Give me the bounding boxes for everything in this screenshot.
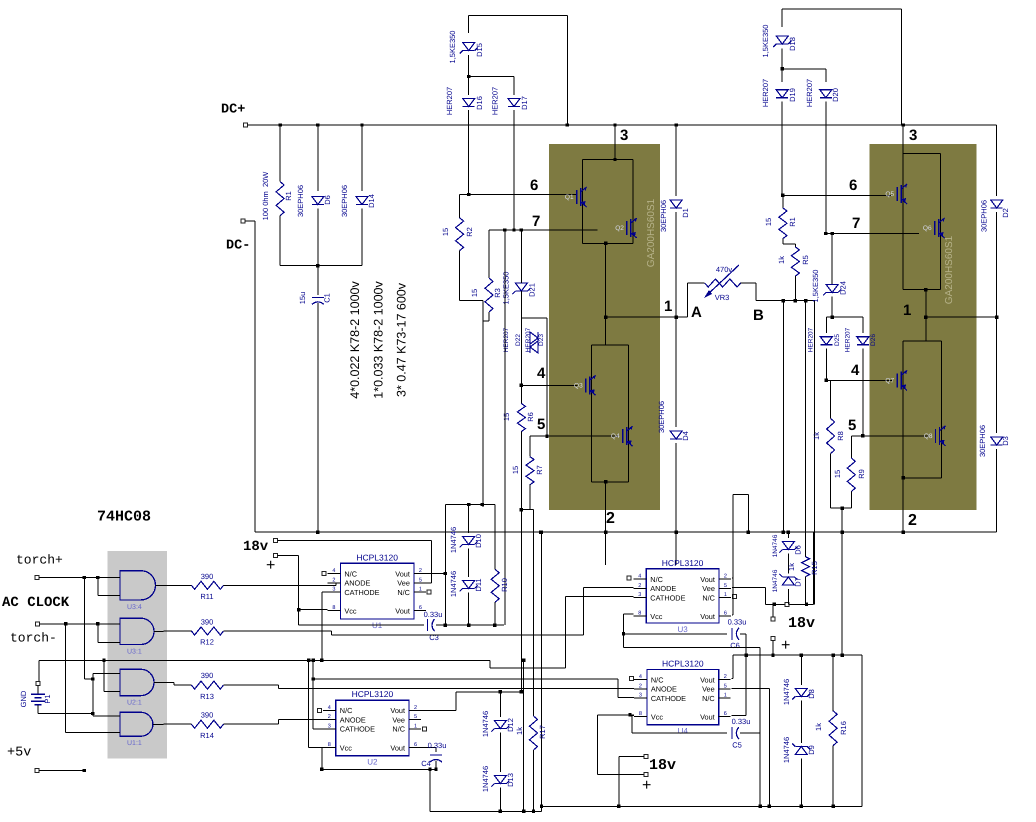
svg-text:Q3: Q3 [574, 382, 583, 389]
svg-text:D1: D1 [681, 208, 690, 218]
svg-text:U3: U3 [677, 625, 688, 634]
svg-text:4: 4 [328, 705, 331, 711]
svg-text:ANODE: ANODE [651, 685, 677, 694]
svg-text:R1: R1 [284, 191, 293, 201]
svg-text:D20: D20 [831, 88, 840, 102]
svg-text:U3:1: U3:1 [127, 649, 142, 656]
svg-text:74HC08: 74HC08 [97, 509, 151, 526]
svg-text:3: 3 [638, 592, 641, 598]
svg-text:1: 1 [724, 592, 727, 598]
svg-text:1N4746: 1N4746 [772, 534, 779, 557]
svg-text:2: 2 [638, 583, 641, 589]
svg-text:HER207: HER207 [845, 327, 852, 352]
svg-text:0.33u: 0.33u [428, 741, 447, 750]
svg-text:C3: C3 [429, 633, 439, 642]
svg-text:P1: P1 [43, 694, 52, 703]
svg-text:Vout: Vout [390, 743, 405, 752]
svg-text:HER207: HER207 [503, 327, 510, 352]
svg-text:1N4746: 1N4746 [481, 766, 490, 792]
svg-text:+5v: +5v [7, 746, 31, 761]
svg-text:HER207: HER207 [525, 327, 532, 352]
svg-text:1*0.033 K78-2 1000v: 1*0.033 K78-2 1000v [372, 281, 386, 399]
svg-text:U2:1: U2:1 [127, 700, 142, 707]
svg-text:1k: 1k [777, 256, 786, 264]
svg-text:D4: D4 [681, 431, 690, 441]
svg-text:8: 8 [638, 611, 641, 617]
svg-text:1: 1 [903, 302, 911, 319]
svg-text:1N4746: 1N4746 [782, 737, 791, 763]
svg-text:30EPH06: 30EPH06 [340, 185, 349, 217]
svg-text:HER207: HER207 [491, 87, 500, 115]
svg-text:D26: D26 [870, 334, 877, 346]
svg-text:3: 3 [332, 587, 335, 593]
svg-text:R14: R14 [200, 731, 214, 740]
svg-text:3: 3 [639, 693, 642, 699]
svg-text:C1: C1 [323, 293, 332, 303]
svg-text:torch-: torch- [10, 631, 57, 646]
svg-text:U1:1: U1:1 [127, 740, 142, 747]
svg-text:8: 8 [328, 742, 331, 748]
svg-text:3: 3 [909, 127, 917, 144]
svg-text:D6: D6 [323, 195, 332, 205]
svg-text:1: 1 [664, 298, 672, 315]
svg-text:HER207: HER207 [761, 79, 770, 107]
svg-text:R9: R9 [857, 469, 866, 479]
svg-text:18v: 18v [788, 615, 815, 632]
svg-text:R10: R10 [500, 578, 509, 592]
svg-text:Vout: Vout [395, 569, 410, 578]
svg-text:30EPH06: 30EPH06 [978, 425, 987, 457]
svg-text:ANODE: ANODE [344, 579, 370, 588]
svg-text:D25: D25 [834, 334, 841, 346]
svg-text:Vout: Vout [700, 575, 715, 584]
svg-text:Q1: Q1 [565, 194, 574, 201]
svg-text:D23: D23 [538, 334, 545, 346]
svg-text:4: 4 [537, 365, 546, 382]
svg-text:Vout: Vout [700, 675, 715, 684]
svg-text:Q8: Q8 [924, 433, 933, 440]
svg-text:HCPL3120: HCPL3120 [662, 658, 704, 668]
svg-text:D21: D21 [528, 283, 537, 297]
svg-text:N/C: N/C [651, 675, 664, 684]
svg-text:1N4746: 1N4746 [772, 569, 779, 592]
svg-text:U4: U4 [678, 727, 689, 736]
svg-text:Q5: Q5 [885, 191, 894, 198]
svg-text:1: 1 [414, 723, 417, 729]
svg-text:1N4746: 1N4746 [782, 679, 791, 705]
svg-text:2: 2 [724, 574, 727, 580]
svg-text:6: 6 [530, 177, 538, 194]
svg-text:4*0.022 K78-2 1000v: 4*0.022 K78-2 1000v [348, 281, 362, 399]
svg-text:D18: D18 [788, 37, 797, 51]
svg-text:U2: U2 [367, 758, 378, 767]
svg-text:6: 6 [724, 611, 727, 617]
svg-text:D19: D19 [788, 88, 797, 102]
svg-text:D17: D17 [520, 96, 529, 110]
svg-text:100 0hm 20W: 100 0hm 20W [261, 171, 270, 221]
svg-text:A: A [691, 304, 702, 321]
svg-text:30EPH06: 30EPH06 [296, 185, 305, 217]
svg-text:Vee: Vee [397, 579, 410, 588]
svg-text:4: 4 [332, 568, 335, 574]
svg-text:0.33u: 0.33u [732, 717, 751, 726]
svg-text:5: 5 [419, 577, 422, 583]
svg-text:HER207: HER207 [805, 79, 814, 107]
svg-text:6: 6 [419, 605, 422, 611]
svg-text:C5: C5 [732, 741, 742, 750]
svg-text:HER207: HER207 [808, 327, 815, 352]
svg-text:15: 15 [833, 470, 842, 478]
svg-text:N/C: N/C [650, 575, 663, 584]
svg-text:N/C: N/C [340, 706, 353, 715]
svg-text:1k: 1k [787, 563, 796, 571]
svg-text:HCPL3120: HCPL3120 [662, 558, 704, 568]
svg-text:8: 8 [639, 711, 642, 717]
svg-text:D3: D3 [1001, 436, 1010, 446]
svg-text:1: 1 [724, 693, 727, 699]
svg-text:D24: D24 [839, 281, 848, 295]
svg-text:D12: D12 [506, 718, 515, 732]
svg-text:1,5KE350: 1,5KE350 [448, 31, 457, 64]
svg-text:GND: GND [19, 690, 28, 707]
svg-text:Vcc: Vcc [340, 743, 353, 752]
svg-text:D8: D8 [807, 689, 816, 699]
svg-text:R8: R8 [836, 431, 845, 441]
svg-text:HER207: HER207 [445, 87, 454, 115]
svg-text:D2: D2 [1001, 208, 1010, 218]
svg-text:2: 2 [908, 512, 917, 529]
svg-text:2: 2 [414, 705, 417, 711]
svg-text:3* 0.47 K73-17 600v: 3* 0.47 K73-17 600v [394, 282, 408, 397]
svg-text:N/C: N/C [702, 593, 715, 602]
svg-text:R16: R16 [839, 721, 848, 735]
svg-text:2: 2 [332, 577, 335, 583]
svg-text:Vcc: Vcc [651, 713, 664, 722]
svg-text:470v: 470v [716, 265, 733, 274]
svg-text:1k: 1k [814, 723, 823, 731]
svg-text:+: + [642, 777, 651, 794]
svg-text:4: 4 [638, 574, 641, 580]
svg-text:U3:4: U3:4 [127, 604, 142, 611]
svg-text:1,5KE350: 1,5KE350 [811, 270, 820, 303]
svg-text:HCPL3120: HCPL3120 [356, 552, 398, 562]
svg-text:6: 6 [724, 711, 727, 717]
svg-text:1k: 1k [515, 727, 524, 735]
svg-text:8: 8 [332, 605, 335, 611]
svg-text:+: + [266, 557, 275, 574]
svg-text:0.33u: 0.33u [728, 618, 747, 627]
svg-text:CATHODE: CATHODE [650, 593, 685, 602]
svg-text:R2: R2 [465, 227, 474, 237]
svg-text:Vout: Vout [700, 612, 715, 621]
svg-text:7: 7 [532, 213, 540, 230]
svg-text:15u: 15u [298, 292, 307, 305]
svg-text:Q7: Q7 [885, 377, 894, 384]
svg-text:Q4: Q4 [611, 433, 620, 440]
svg-text:DC+: DC+ [221, 103, 245, 118]
svg-text:Vout: Vout [700, 713, 715, 722]
svg-text:1,5KE350: 1,5KE350 [761, 25, 770, 58]
svg-text:R7: R7 [535, 465, 544, 475]
svg-text:30EPH06: 30EPH06 [659, 200, 668, 232]
svg-text:D11: D11 [474, 578, 483, 591]
svg-text:D22: D22 [515, 334, 522, 346]
svg-text:torch+: torch+ [16, 553, 63, 568]
svg-text:GA200HS60S1: GA200HS60S1 [646, 198, 657, 267]
svg-text:1N4746: 1N4746 [449, 527, 458, 553]
svg-text:D13: D13 [506, 773, 515, 787]
svg-text:15: 15 [470, 289, 479, 297]
svg-text:N/C: N/C [344, 569, 357, 578]
svg-text:+: + [781, 637, 790, 654]
svg-text:2: 2 [724, 674, 727, 680]
svg-text:1N4746: 1N4746 [481, 711, 490, 737]
svg-text:15: 15 [764, 218, 773, 226]
svg-text:Vee: Vee [392, 716, 405, 725]
svg-text:R6: R6 [526, 412, 535, 422]
svg-text:5: 5 [414, 714, 417, 720]
svg-text:D7: D7 [794, 577, 803, 587]
svg-text:Vcc: Vcc [650, 612, 663, 621]
svg-text:N/C: N/C [392, 725, 405, 734]
svg-text:R11: R11 [200, 592, 213, 601]
svg-text:VR3: VR3 [715, 293, 730, 302]
svg-text:R15: R15 [810, 561, 819, 575]
svg-text:D14: D14 [367, 194, 376, 208]
svg-text:C6: C6 [730, 641, 740, 650]
svg-text:R17: R17 [538, 725, 547, 739]
svg-text:7: 7 [852, 215, 860, 232]
svg-text:3: 3 [620, 127, 628, 144]
svg-text:18v: 18v [649, 757, 676, 774]
svg-text:2: 2 [328, 714, 331, 720]
svg-text:0.33u: 0.33u [424, 610, 443, 619]
svg-text:ANODE: ANODE [340, 716, 366, 725]
svg-text:N/C: N/C [397, 588, 410, 597]
svg-text:15: 15 [502, 413, 511, 421]
svg-text:Vcc: Vcc [344, 606, 357, 615]
svg-text:CATHODE: CATHODE [651, 694, 686, 703]
svg-text:R13: R13 [200, 692, 214, 701]
svg-text:5: 5 [537, 416, 545, 433]
svg-text:1N4746: 1N4746 [449, 571, 458, 597]
svg-text:15: 15 [511, 466, 520, 474]
svg-text:R1: R1 [788, 217, 797, 227]
svg-text:6: 6 [414, 742, 417, 748]
svg-text:Q6: Q6 [923, 225, 932, 232]
svg-text:Vee: Vee [702, 685, 715, 694]
svg-text:2: 2 [606, 510, 615, 527]
svg-text:1,5KE350: 1,5KE350 [502, 272, 511, 305]
svg-text:Vout: Vout [390, 706, 405, 715]
svg-text:CATHODE: CATHODE [344, 588, 379, 597]
svg-text:390: 390 [201, 671, 214, 680]
svg-text:GA200HS60S1: GA200HS60S1 [944, 235, 955, 304]
svg-text:HCPL3120: HCPL3120 [352, 689, 394, 699]
svg-text:C4: C4 [421, 759, 431, 768]
svg-text:18v: 18v [243, 539, 269, 555]
svg-text:DC-: DC- [226, 239, 250, 254]
svg-text:Q2: Q2 [615, 225, 624, 232]
svg-text:15: 15 [441, 228, 450, 236]
svg-text:3: 3 [328, 723, 331, 729]
svg-text:1k: 1k [812, 432, 821, 440]
svg-text:B: B [753, 307, 764, 324]
svg-text:6: 6 [849, 177, 857, 194]
svg-text:390: 390 [201, 711, 214, 720]
svg-text:30EPH06: 30EPH06 [657, 401, 666, 433]
svg-text:N/C: N/C [702, 694, 715, 703]
svg-text:Vee: Vee [702, 584, 715, 593]
svg-text:5: 5 [724, 683, 727, 689]
svg-text:D9: D9 [807, 745, 816, 755]
svg-text:1: 1 [419, 587, 422, 593]
svg-text:390: 390 [201, 572, 214, 581]
svg-text:R12: R12 [200, 638, 214, 647]
svg-text:30EPH06: 30EPH06 [980, 200, 989, 232]
svg-text:2: 2 [419, 568, 422, 574]
svg-text:AC CLOCK: AC CLOCK [2, 595, 70, 611]
svg-text:2: 2 [639, 683, 642, 689]
svg-text:D10: D10 [474, 534, 483, 548]
svg-text:4: 4 [639, 674, 642, 680]
svg-text:5: 5 [724, 583, 727, 589]
svg-text:D15: D15 [475, 43, 484, 57]
svg-text:D6: D6 [794, 545, 803, 555]
svg-text:ANODE: ANODE [650, 584, 676, 593]
svg-text:5: 5 [848, 417, 856, 434]
svg-text:CATHODE: CATHODE [340, 725, 375, 734]
svg-text:R5: R5 [801, 255, 810, 265]
svg-text:D16: D16 [475, 96, 484, 110]
svg-text:390: 390 [201, 618, 214, 627]
svg-text:Vout: Vout [395, 606, 410, 615]
svg-text:4: 4 [851, 362, 860, 379]
